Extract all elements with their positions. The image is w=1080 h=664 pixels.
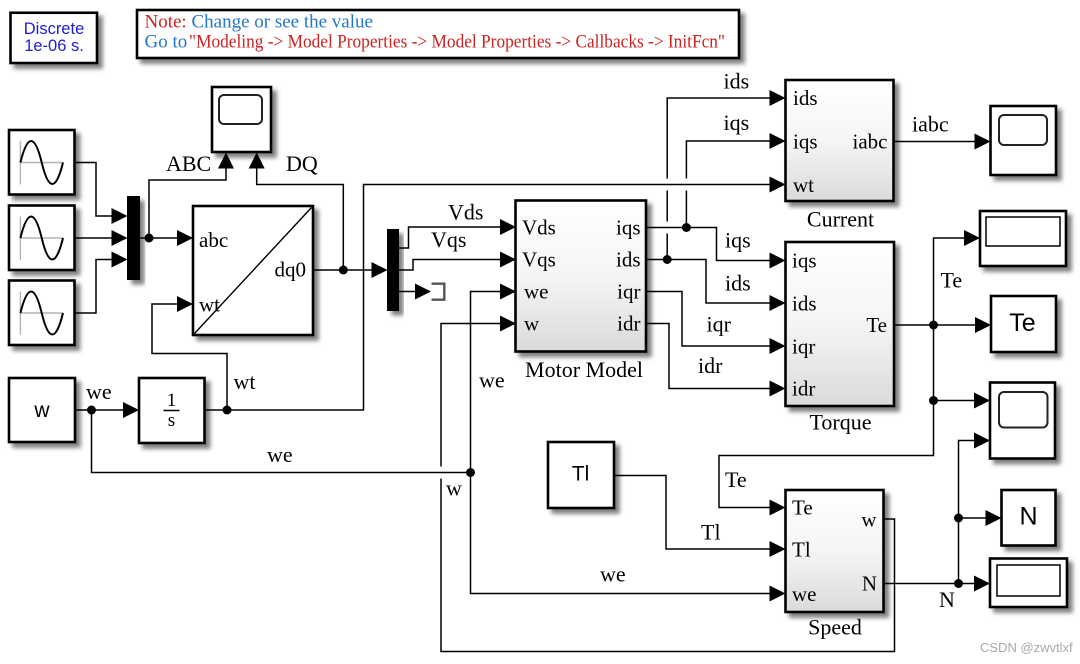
label ABC (166, 151, 211, 176)
svg-text:Motor Model: Motor Model (525, 357, 643, 382)
svg-text:iqs: iqs (724, 110, 750, 135)
svg-text:Current: Current (807, 207, 874, 232)
svg-text:Note: Change or see the value: Note: Change or see the value (145, 12, 373, 33)
svg-text:ids: ids (793, 86, 818, 110)
wire ABC tap to scope (149, 168, 226, 239)
svg-text:Discrete: Discrete (24, 20, 85, 38)
wire we from w source to junction (92, 410, 471, 473)
wire Te down to scope4 in1 (934, 325, 976, 401)
arrow Vds in (500, 219, 516, 235)
svg-text:we: we (600, 562, 626, 587)
wire wt branch to dq0 wt in (152, 304, 227, 410)
arrow Speed we in (770, 586, 786, 602)
label iabc (912, 112, 949, 137)
svg-text:we: we (86, 379, 112, 404)
arrow Current ids in (770, 90, 786, 106)
svg-text:Vqs: Vqs (522, 248, 556, 272)
svg-text:s: s (168, 410, 175, 431)
wire iqs from Motor iqs junction up to Current iqs in (686, 141, 769, 228)
wire w source to integrator (75, 409, 124, 411)
block scope4 (990, 383, 1055, 459)
block sine wave 3 (9, 281, 75, 346)
wire Speed N out to display2 (884, 583, 976, 585)
block Torque subsystem (786, 242, 895, 406)
arrow scope1 in (975, 134, 991, 150)
wire we down to Speed we in (471, 473, 771, 594)
arrow integrator in (123, 402, 139, 418)
svg-text:DQ: DQ (286, 151, 318, 176)
arrow Torque iqr in (770, 338, 786, 354)
wire w feedback from Speed w out to Motor w in (441, 324, 895, 652)
demux (387, 229, 399, 311)
wire demux out1 to Vds (399, 227, 501, 248)
label we near Speed (600, 562, 626, 587)
svg-text:N: N (1019, 503, 1037, 531)
wire Motor iqs out to Torque iqs in (646, 228, 771, 261)
block scope iabc (991, 106, 1057, 175)
svg-text:ids: ids (792, 292, 817, 316)
watermark (980, 640, 1073, 655)
label iqs mid (725, 228, 751, 253)
svg-text:"Modeling -> Model Properties: "Modeling -> Model Properties -> Model P… (189, 31, 725, 52)
svg-text:w: w (861, 508, 877, 532)
block sine wave 1 (9, 130, 75, 195)
label idr (698, 353, 723, 378)
arrow mux in2 (112, 230, 128, 246)
label ids top (724, 69, 750, 94)
label we mid (267, 442, 293, 467)
wire Te up to display1 (934, 238, 966, 325)
node N junction 2 (954, 514, 963, 523)
label iqs top (724, 110, 750, 135)
wire iabc to scope1 (894, 141, 976, 143)
mux (127, 196, 140, 280)
svg-text:CSDN @zwvtlxf: CSDN @zwvtlxf (980, 640, 1073, 655)
wire wt from integrator to Current wt in (205, 185, 771, 411)
arrow display2 in (974, 576, 990, 592)
svg-text:Go to: Go to (145, 31, 188, 52)
node dq0 out junction (339, 266, 348, 275)
arrow Current iqs in (770, 133, 786, 149)
arrow mux in3 (112, 252, 128, 268)
svg-text:we: we (267, 442, 293, 467)
label we near Motor (479, 368, 505, 393)
svg-text:1: 1 (167, 390, 177, 411)
wire crossing gap at ids x wt (665, 179, 669, 191)
label Current title (807, 207, 874, 232)
wire demux out3 to terminator (399, 291, 416, 293)
wire sine1 to mux in1 (75, 163, 113, 217)
svg-text:dq0: dq0 (275, 258, 307, 282)
arrow Speed Tl in (770, 541, 786, 557)
svg-text:Vds: Vds (448, 200, 483, 225)
wire crossing gap at ids x iqs-out (665, 222, 669, 234)
label DQ (286, 151, 318, 176)
svg-text:we: we (524, 280, 549, 304)
label N (939, 587, 955, 612)
block Motor Model (516, 201, 647, 352)
svg-text:ABC: ABC (166, 151, 211, 176)
svg-text:Te: Te (866, 313, 887, 337)
svg-text:w: w (446, 476, 462, 501)
label ids mid (725, 271, 751, 296)
svg-text:ids: ids (616, 248, 641, 272)
label Speed title (808, 615, 862, 640)
wire crossing gap at iqs x wt (684, 179, 688, 191)
label Tl (701, 520, 721, 545)
wire Motor idr out to Torque idr in (646, 324, 771, 389)
arrow abc in (177, 230, 193, 246)
svg-text:we: we (479, 368, 505, 393)
wire dq0 out to demux in (313, 269, 373, 271)
label iqr (707, 312, 732, 337)
arrow Torque idr in (770, 381, 786, 397)
terminator symbol (432, 284, 445, 300)
wire mux out to abc in (140, 237, 178, 239)
block N display (1002, 490, 1056, 546)
block display1 (980, 211, 1066, 266)
svg-text:iqs: iqs (793, 130, 818, 154)
annotation Note box (137, 10, 739, 58)
arrow mux in1 (112, 208, 128, 224)
svg-text:Te: Te (725, 467, 747, 492)
svg-text:idr: idr (792, 377, 815, 401)
svg-text:idr: idr (698, 353, 723, 378)
svg-text:wt: wt (199, 293, 220, 317)
node N junction (954, 579, 963, 588)
arrow Te display in (975, 317, 991, 333)
node mux out junction (145, 234, 154, 243)
arrow w in (500, 316, 516, 332)
svg-text:we: we (792, 582, 817, 606)
svg-text:Vqs: Vqs (431, 227, 466, 252)
wire crossing gap at w x we (439, 467, 443, 479)
svg-text:abc: abc (199, 228, 228, 252)
block sine wave 2 (9, 206, 75, 271)
node ids junction (663, 255, 672, 264)
arrow Speed Te in (770, 500, 786, 516)
arrow N display in (986, 510, 1002, 526)
label we near w source (86, 379, 112, 404)
label Motor Model title (525, 357, 643, 382)
node we junction at w source (87, 406, 96, 415)
svg-text:ids: ids (725, 271, 751, 296)
label Vqs (431, 227, 466, 252)
arrow Vqs in (500, 252, 516, 268)
node Te junction 2 (929, 396, 938, 405)
svg-text:iqs: iqs (792, 249, 817, 273)
svg-text:Torque: Torque (810, 410, 872, 435)
wire Te out to Te display (894, 324, 976, 326)
arrow Current wt in (770, 177, 786, 193)
wire sine3 to mux in3 (75, 260, 113, 314)
label wt (234, 369, 256, 394)
svg-text:1e-06 s.: 1e-06 s. (24, 37, 84, 55)
wire Te to Speed Te in (719, 401, 934, 508)
arrow ABC scope in (218, 153, 234, 169)
node Te junction (929, 321, 938, 330)
svg-text:w: w (524, 312, 540, 336)
arrow Torque iqs in (770, 253, 786, 269)
block abc to dq0 transform (193, 206, 313, 335)
arrow DQ scope in (249, 153, 265, 169)
svg-text:wt: wt (793, 173, 814, 197)
svg-text:Tl: Tl (792, 538, 811, 562)
svg-text:Te: Te (941, 268, 963, 293)
svg-text:iqs: iqs (616, 216, 641, 240)
block integrator 1/s (139, 378, 205, 443)
arrow demux in (372, 262, 388, 278)
wire N up to scope4 in2 (959, 441, 976, 584)
arrow display1 in (964, 230, 980, 246)
wire ids from Motor ids junction up to Current ids in (667, 98, 769, 260)
arrow scope4 in1 (974, 393, 990, 409)
svg-text:iqr: iqr (707, 312, 732, 337)
svg-text:Tl: Tl (701, 520, 721, 545)
block Tl source (548, 442, 614, 508)
svg-text:N: N (862, 572, 877, 596)
svg-text:iqr: iqr (792, 335, 815, 359)
wire N branch to N display (959, 517, 987, 519)
block Current subsystem (786, 80, 894, 201)
node wt junction (223, 406, 232, 415)
label Te near Speed (725, 467, 747, 492)
node iqs junction (682, 223, 691, 232)
svg-text:iqr: iqr (617, 280, 640, 304)
label Te vertical wire (941, 268, 963, 293)
svg-text:ids: ids (724, 69, 750, 94)
svg-text:iabc: iabc (912, 112, 949, 137)
svg-text:Te: Te (1009, 309, 1035, 337)
svg-text:wt: wt (234, 369, 256, 394)
wire demux out2 to Vqs (399, 260, 501, 271)
wire Motor iqr out to Torque iqr in (646, 292, 771, 347)
arrow terminator in (415, 284, 431, 300)
arrow we in (500, 284, 516, 300)
wire we up to Motor we in (471, 292, 502, 473)
svg-text:Te: Te (792, 496, 813, 520)
svg-text:Speed: Speed (808, 615, 862, 640)
block Te goto display (991, 296, 1056, 352)
arrow wt in (177, 296, 193, 312)
label Torque title (810, 410, 872, 435)
svg-text:Vds: Vds (522, 216, 556, 240)
block scope ABC-DQ (212, 87, 271, 152)
node we junction mid (466, 468, 475, 477)
svg-text:Tl: Tl (572, 463, 590, 486)
svg-text:idr: idr (617, 312, 640, 336)
arrow Torque ids in (770, 295, 786, 311)
svg-text:w: w (33, 399, 50, 422)
svg-text:iqs: iqs (725, 228, 751, 253)
label Vds (448, 200, 483, 225)
block display2 (990, 559, 1067, 608)
label w (446, 476, 462, 501)
block Discrete sample time (11, 13, 98, 63)
wire Tl out to Speed Tl in (614, 476, 771, 550)
wire sine2 to mux in2 (75, 237, 113, 239)
block Speed subsystem (786, 490, 884, 612)
wire DQ tap to scope (257, 168, 344, 271)
block w source (9, 378, 75, 442)
svg-text:iabc: iabc (853, 130, 888, 154)
wire Motor ids out to Torque ids in (646, 260, 771, 304)
arrow scope4 in2 (974, 433, 990, 449)
svg-text:N: N (939, 587, 955, 612)
